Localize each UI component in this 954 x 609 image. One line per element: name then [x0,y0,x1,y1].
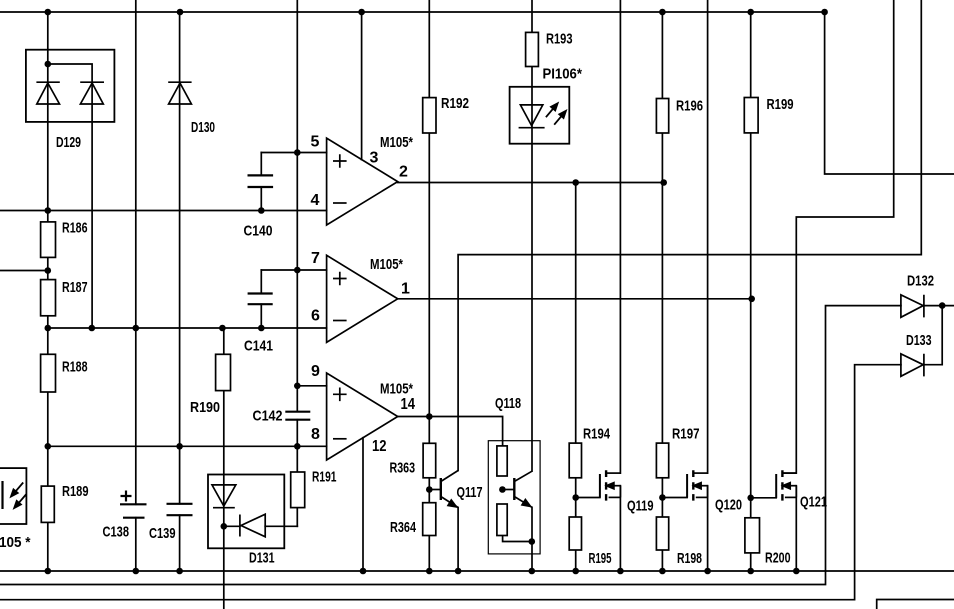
svg-text:R196: R196 [676,98,703,115]
node pin7 / reference trunk [294,267,301,274]
node op1 output / R197 [660,179,667,186]
wire Q117 base [429,489,441,491]
svg-text:3: 3 [370,150,379,167]
PI106 light emission arrows [546,103,566,124]
node rail1 / R200 [747,568,754,575]
node op1 output / R194 [572,179,579,186]
wire R194 R195 trunk [575,183,577,572]
node op2 output / R199 trunk [748,296,755,303]
wire op-amp U3 pin 9 input [297,385,326,387]
wire op-amp U3 pin 8 input [48,445,327,447]
svg-text:Q119: Q119 [627,498,654,515]
node top rail / R196 [659,9,666,16]
node D132 cathode [939,302,946,309]
svg-text:M105*: M105* [370,256,403,273]
svg-text:Q121: Q121 [800,494,827,511]
resistor R198 body [656,517,668,550]
resistor R197 body [656,443,668,478]
wire Q120 drain from top edge [707,0,709,473]
node D131 internal junction [221,523,228,530]
wire D131 to R191 [265,525,297,527]
svg-text:C138: C138 [103,524,130,541]
capacitor C141 [248,294,273,305]
wire bottom ground rail 1 [0,570,954,572]
node rail1 / R189 [45,568,52,575]
svg-text:8: 8 [311,426,320,443]
node rail1 / R195 [572,568,579,575]
svg-text:M105*: M105* [380,381,413,398]
wire Q117 collector net from top edge [458,0,921,471]
node pin6 wire / D129 branch [89,325,96,332]
node Q120 gate / R197 R198 [659,494,666,501]
node pin6 wire / R187 R188 [45,325,52,332]
wire op-amp U2 pin 7 input [261,269,326,271]
wire D132/D133 cathode join [924,306,942,365]
wire C139 trunk lower [179,515,181,571]
diode pair D131 package box [208,475,284,549]
resistor R192 body [423,98,436,133]
node top rail / pin3 [358,9,365,16]
svg-text:D133: D133 [906,332,932,349]
wire D129 second diode branch [48,64,92,328]
svg-text:C139: C139 [149,525,176,542]
transistor Q118 package box [488,441,540,554]
svg-text:Q120: Q120 [715,497,742,514]
svg-text:5: 5 [311,134,320,151]
node pin9 / reference trunk [294,383,301,390]
wire R196 R197 R198 trunk [661,12,663,571]
op-amp U1 (M105 comparator) [327,138,398,225]
svg-text:R190: R190 [190,399,220,416]
wire Q119 gate [576,497,600,499]
node Q121 gate / R199 R200 [747,495,754,502]
wire C140 top lead [260,153,262,176]
resistor R199 body [744,98,758,133]
node D129 internal [45,61,52,68]
svg-text:R188: R188 [62,359,88,376]
diode pair D129 package box [26,50,115,122]
op-amp U2 (M105 comparator) [327,255,398,342]
svg-text:D130: D130 [191,119,215,136]
node rail1 / pin12 [360,568,367,575]
node rail1 / Q118 emitter [529,568,536,575]
svg-text:14: 14 [401,396,416,413]
node Q119 gate / R194 R195 [572,494,579,501]
svg-text:9: 9 [311,363,320,380]
wire D131 internal left [224,525,240,527]
optocoupler PI106 LED box [510,87,570,144]
wire Q120 source to ground rail [707,486,709,571]
wire Q119 drain from top edge [619,0,621,473]
svg-text:R189: R189 [62,483,89,500]
diode D131 vertical element [212,485,236,508]
node Q117 base / R363 R364 [426,486,433,493]
node rail1 / Q120 source [704,568,711,575]
wire D130 C139 trunk upper [179,12,181,504]
resistor R363 body [423,443,436,478]
resistor Q118 internal upper body [497,446,507,476]
svg-text:PI106*: PI106* [543,66,583,83]
resistor R200 body [745,518,760,553]
wire C141 top lead [260,270,262,294]
capacitor C140 [248,175,274,187]
wire R192 R363 R364 trunk from top edge [428,0,430,571]
transistor Q118 (in package) [514,471,532,507]
resistor R190 body [216,354,231,390]
svg-text:R191: R191 [312,469,337,486]
wire C141 bottom lead [260,304,262,328]
resistor R191 body [291,472,305,508]
resistor R187 body [41,280,56,316]
svg-text:105 *: 105 * [0,534,31,551]
MOSFET Q119 [600,470,621,500]
wire bottom right block frame [877,600,954,609]
wire Q121 gate [751,497,777,499]
wire left trunk through D129 R186 R187 R188 R189 [47,12,49,571]
node rail1 / Q121 source [793,568,800,575]
resistor R364 body [423,503,436,536]
wire Q118 base [502,489,514,491]
diode D131 horizontal element [240,514,265,537]
resistor R188 body [41,354,56,392]
svg-text:12: 12 [372,438,387,455]
resistor R196 body [656,99,668,134]
svg-text:R195: R195 [589,550,612,567]
svg-text:D129: D129 [56,134,81,151]
svg-text:R199: R199 [767,96,794,113]
svg-text:R198: R198 [677,550,702,567]
resistor R195 body [569,517,581,550]
wire top supply rail [0,11,825,13]
node top rail / R199 [747,9,754,16]
diode D132 [901,295,924,318]
svg-text:1: 1 [401,281,410,298]
svg-text:D132: D132 [907,273,934,290]
wire bottom rail 3 to D133 anode [0,365,901,600]
svg-text:6: 6 [311,308,320,325]
node top rail / D130 [177,9,184,16]
diode D129 right half [80,82,104,104]
node pin6 wire / C141 [258,325,265,332]
node pin6 wire / C138 trunk [133,325,140,332]
node rail1 / C139 [176,568,183,575]
capacitor C139 [167,504,193,515]
node rail1 / R364 [426,568,433,575]
wire Q118 emitter to ground rail [531,507,533,571]
svg-text:R364: R364 [390,519,416,536]
wire Q121 drain net from top edge [782,0,893,473]
wire Q117 emitter to ground rail [457,508,459,572]
svg-text:M105*: M105* [380,134,413,151]
node top rail right end [821,9,828,16]
svg-text:Q117: Q117 [457,484,483,501]
svg-text:R187: R187 [62,279,88,296]
node pin8 wire / R188 R189 [45,443,52,450]
svg-text:R186: R186 [62,220,88,237]
resistor R186 body [41,222,56,258]
diode D130 [168,82,191,104]
svg-text:2: 2 [399,164,408,181]
wire op-amp supply pin 12 [362,438,364,571]
svg-text:C141: C141 [244,338,273,355]
diode D129 left half [36,82,59,104]
MOSFET Q120 [687,470,708,500]
svg-text:7: 7 [311,250,320,267]
node rail1 / Q117 emitter [455,568,462,575]
node Q118 base junction [499,486,506,493]
node rail1 / Q119 source [617,568,624,575]
svg-text:R197: R197 [672,426,700,443]
optocoupler 105 receiver box (clipped at left edge) [0,468,26,524]
wire op-amp U3 output pin 14 to Q118 [398,417,503,446]
wire bottom rail 2 to D132 anode [0,306,901,585]
svg-text:R363: R363 [390,460,416,477]
wire Q120 gate [662,497,687,499]
optocoupler 105 receiver arrows and element [3,481,27,509]
svg-text:C142: C142 [253,408,283,425]
wire op-amp supply pin 3 [361,12,363,160]
svg-text:D131: D131 [249,550,275,567]
wire C138 trunk upper from top edge [135,0,137,504]
resistor R189 body [41,486,54,522]
node pin5 / reference trunk [294,149,301,156]
svg-text:R200: R200 [765,550,791,567]
wire op-amp U2 pin 6 input [48,327,327,329]
wire left stub to R186/R187 junction [0,270,48,272]
wire reference trunk lower through R191 [296,420,298,527]
wire from top rail to right edge [825,12,954,174]
LED of optocoupler PI106 [519,105,545,128]
capacitor C138 (electrolytic, polarity +) [120,491,147,518]
wire Q121 source to ground rail [795,486,797,571]
wire C138 trunk lower [135,518,137,571]
node R186 R187 junction [45,267,52,274]
node op3 output / R192 R363 [426,413,433,420]
node pin8 wire / C139 [176,443,183,450]
node pin4 wire / C140 [258,207,265,214]
capacitor C142 [285,412,310,420]
svg-text:C140: C140 [244,223,273,240]
node pin8 wire / R191 [294,443,301,450]
wire op-amp U2 output pin 1 net [398,298,752,300]
wire R199 R200 trunk [750,12,752,571]
svg-text:R192: R192 [441,95,469,112]
wire R193 PI106 Q118 collector trunk from top edge [531,0,533,471]
wire op-amp U1 pin 4 input [0,210,327,212]
svg-text:R193: R193 [546,31,573,48]
resistor R193 body [526,32,539,66]
wire R190 D131 trunk to bottom edge [223,328,225,609]
wire C140 bottom lead [260,187,262,211]
node pin6 wire / R190 [219,325,226,332]
node pin4 wire / R186 [45,207,52,214]
diode D133 [901,354,924,377]
wire op-amp U1 output pin 2 net [398,182,664,184]
wire Q118 internal resistor to emitter [503,536,532,542]
svg-text:R194: R194 [583,426,610,443]
wire D132 cathode to right edge [924,305,954,307]
svg-text:4: 4 [311,192,320,209]
wire Q119 source to ground rail [619,486,621,571]
resistor R194 body [569,443,581,478]
transistor Q117 [441,471,458,508]
svg-text:Q118: Q118 [495,395,521,412]
MOSFET Q121 [776,470,796,500]
node rail1 / C138 [133,568,140,575]
wire op-amp U1 pin 5 input [261,152,326,154]
wire reference trunk upper from top edge [296,0,298,412]
resistor Q118 internal lower body [497,504,507,536]
node rail1 / R198 [659,568,666,575]
op-amp U3 (M105 comparator) [327,373,398,460]
node Q118 emitter junction [529,538,536,545]
node top rail / D129 [45,9,52,16]
